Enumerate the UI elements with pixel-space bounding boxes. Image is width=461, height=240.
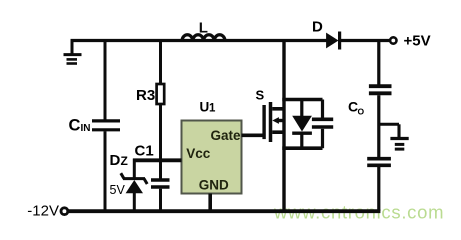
wire top rail (right segment, diode cathode to +5V terminal) <box>340 39 390 42</box>
capacitor CO bottom <box>367 159 391 211</box>
ground (output, right) <box>379 124 409 149</box>
svg-text:+5V: +5V <box>404 33 431 50</box>
svg-text:S: S <box>256 88 265 103</box>
svg-text:Z: Z <box>121 154 128 168</box>
terminal -12V <box>61 208 68 215</box>
svg-text:5V: 5V <box>110 183 126 197</box>
svg-text:Gate: Gate <box>211 128 242 143</box>
svg-text:D: D <box>110 152 121 169</box>
wire Vcc (U1 left pin to zener corner) <box>133 158 182 162</box>
snubber body diode + capacitor network <box>282 100 333 149</box>
IC U1 <box>182 121 242 194</box>
wire drain-source vertical (top rail to bottom rail) <box>282 39 285 211</box>
svg-text:IN: IN <box>81 123 91 134</box>
svg-text:U: U <box>200 99 210 114</box>
wire gate (U1 right pin to MOSFET gate) <box>242 134 265 138</box>
capacitor C1 <box>151 160 170 211</box>
svg-text:Vcc: Vcc <box>186 146 211 161</box>
capacitor CIN (with input line) <box>92 41 120 212</box>
wire bottom rail (-12V to CO branch) <box>69 209 381 213</box>
terminal +5V <box>390 37 396 43</box>
zener diode DZ <box>121 159 147 212</box>
svg-text:-12V: -12V <box>27 202 59 219</box>
diode D <box>326 32 340 50</box>
transistor S (MOSFET) <box>264 102 285 142</box>
svg-text:O: O <box>358 107 365 117</box>
svg-text:GND: GND <box>199 178 229 193</box>
svg-text:R3: R3 <box>136 87 155 104</box>
ground (top left) <box>64 41 82 64</box>
svg-text:1: 1 <box>209 102 216 114</box>
resistor R3 <box>157 41 165 163</box>
wire top rail (left segment, ground to diode anode) <box>71 39 328 42</box>
svg-text:C1: C1 <box>135 142 154 159</box>
svg-text:C: C <box>69 117 81 135</box>
capacitor CO top <box>369 41 392 158</box>
inductor L <box>182 35 225 41</box>
svg-text:D: D <box>312 19 323 36</box>
wire GND pin (U1 bottom to rail) <box>208 194 212 212</box>
